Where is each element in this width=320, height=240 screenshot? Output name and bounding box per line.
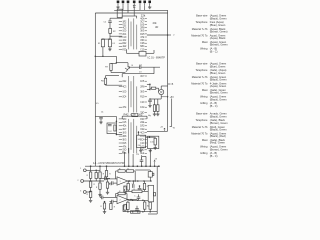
wire +5V drop <box>171 99 173 127</box>
ground <box>89 199 92 202</box>
svg-text:(Brown), Green: (Brown), Green <box>210 91 228 95</box>
wire riser <box>141 155 143 158</box>
junction <box>90 190 92 192</box>
wire <box>132 181 134 184</box>
ground <box>106 191 109 194</box>
wire <box>106 75 120 77</box>
ground <box>98 194 101 197</box>
wire <box>95 115 116 117</box>
wire <box>113 201 117 203</box>
capacitor C21 <box>105 177 106 181</box>
wire <box>90 187 92 191</box>
capacitor C7 <box>99 117 103 118</box>
svg-text:(Blue), Green: (Blue), Green <box>210 64 226 68</box>
svg-text:3C7: 3C7 <box>123 129 127 131</box>
wire to IC1 <box>110 35 122 37</box>
svg-text:10.: 10. <box>101 111 104 113</box>
wire <box>103 38 110 40</box>
wire <box>146 116 148 119</box>
wire <box>113 182 117 184</box>
svg-text:Mast: Mast <box>202 88 208 92</box>
junction <box>128 165 130 167</box>
wire <box>127 181 129 183</box>
wire <box>110 182 112 184</box>
junction <box>104 201 106 203</box>
wire <box>115 194 117 198</box>
wire <box>99 166 101 172</box>
terminal arrow +B <box>154 160 156 166</box>
terminal T5 <box>139 1 142 4</box>
junction <box>158 165 160 167</box>
wire <box>110 202 112 204</box>
svg-text:3C7: 3C7 <box>140 21 145 23</box>
wire <box>150 98 161 100</box>
wire <box>116 62 128 64</box>
wire ic2 top loop <box>122 73 154 75</box>
ground <box>154 147 157 150</box>
wire <box>105 76 107 79</box>
junction <box>142 200 144 202</box>
wire <box>127 6 129 13</box>
svg-text:(Black), Green: (Black), Green <box>210 97 227 101</box>
wire riser <box>149 149 151 167</box>
svg-text:R3O: R3O <box>140 119 144 121</box>
IC U3 pins <box>119 118 122 120</box>
wire <box>104 178 117 180</box>
ground <box>116 6 119 9</box>
terminal T3 <box>127 1 130 4</box>
svg-text:(Black), Green: (Black), Green <box>210 128 227 132</box>
svg-text:R15: R15 <box>140 34 145 36</box>
wire <box>86 191 90 193</box>
wire <box>121 74 123 78</box>
input jack <box>83 169 86 172</box>
wire <box>109 33 111 39</box>
wire bottom rail 2 <box>123 211 157 213</box>
wire <box>136 206 138 209</box>
svg-text:(Black), Green: (Black), Green <box>210 16 227 20</box>
wire loop <box>117 9 122 17</box>
svg-text:I.C.01 - 8948TP: I.C.01 - 8948TP <box>147 56 165 60</box>
wire <box>144 3 146 6</box>
wire <box>156 87 159 89</box>
resistor R31 <box>127 183 129 190</box>
svg-text:1OO: 1OO <box>123 31 127 33</box>
junction <box>124 165 126 167</box>
wire <box>109 183 111 185</box>
wire <box>149 102 151 105</box>
resistor R4 <box>108 39 111 47</box>
wire <box>104 202 106 203</box>
svg-text:1.0k: 1.0k <box>150 142 154 144</box>
wire mid row <box>125 190 133 192</box>
svg-text:Base wire: Base wire <box>196 14 208 18</box>
junction <box>149 165 151 167</box>
ground <box>153 113 156 116</box>
svg-text:R3O: R3O <box>123 49 127 51</box>
junction <box>141 165 143 167</box>
svg-text:Telephone: Telephone <box>196 68 209 72</box>
ground <box>149 149 152 152</box>
junction <box>137 180 139 182</box>
wire <box>107 188 109 191</box>
capacitor C7b <box>108 124 112 125</box>
wire <box>153 67 155 74</box>
wire to f <box>147 34 168 36</box>
wire bus <box>95 12 167 14</box>
wire <box>149 3 151 6</box>
wire <box>106 84 123 86</box>
svg-text:Material 70 To: Material 70 To <box>191 33 208 37</box>
wire <box>149 209 151 212</box>
ground <box>148 104 151 107</box>
wire <box>116 134 122 136</box>
wire <box>90 198 92 200</box>
svg-text:C1O: C1O <box>140 143 144 145</box>
wire <box>144 6 146 11</box>
wire <box>125 170 126 172</box>
resistor R11 <box>114 125 116 131</box>
input jack <box>81 180 84 183</box>
svg-text:1O2: 1O2 <box>140 107 145 109</box>
svg-text:4-1 - AN7273/BA528/TA7376P: 4-1 - AN7273/BA528/TA7376P <box>93 162 125 165</box>
wire <box>115 56 117 63</box>
ground <box>156 113 159 116</box>
svg-text:Base wire: Base wire <box>196 62 208 66</box>
resistor R28b <box>126 170 133 173</box>
svg-text:Wiring: Wiring <box>200 47 208 51</box>
resistor R29 <box>118 192 125 195</box>
ground <box>148 6 151 9</box>
wire <box>139 186 141 188</box>
wire <box>103 196 104 198</box>
svg-text:Mast: Mast <box>202 40 208 44</box>
terminal arrow +B <box>164 128 166 131</box>
junction <box>116 134 118 136</box>
wire box <box>132 113 138 116</box>
wire <box>134 171 136 181</box>
wire <box>124 189 126 191</box>
capacitor C10 <box>140 160 144 161</box>
terminal T7 <box>148 1 151 4</box>
wire <box>157 111 159 112</box>
junction <box>134 180 136 182</box>
wire <box>91 169 100 171</box>
wire <box>144 209 146 212</box>
wire <box>86 169 90 171</box>
wire <box>95 55 116 57</box>
junction <box>99 180 101 182</box>
op-amp A2 <box>117 195 128 203</box>
svg-text:+5V: +5V <box>170 97 175 99</box>
wire <box>124 192 126 193</box>
wire <box>133 3 135 6</box>
junction <box>132 165 134 167</box>
svg-text:O22: O22 <box>123 81 127 83</box>
wire <box>121 16 123 18</box>
resistor R28 <box>118 170 125 173</box>
wire riser <box>145 156 147 166</box>
svg-text:2R8: 2R8 <box>140 86 145 88</box>
svg-text:Telephone: Telephone <box>196 20 209 24</box>
svg-text:(Aqua), Black: (Aqua), Black <box>210 36 226 40</box>
wire <box>104 209 106 211</box>
wire <box>138 194 140 197</box>
junction <box>116 121 118 123</box>
junction <box>132 200 134 202</box>
junction <box>102 56 104 58</box>
wire <box>130 66 140 68</box>
junction f <box>167 34 169 36</box>
junction <box>149 211 151 213</box>
capacitor C8 <box>148 100 152 101</box>
svg-text:Material 7+7b: Material 7+7b <box>192 125 208 129</box>
ground <box>139 149 142 152</box>
junction <box>138 132 140 134</box>
svg-text:Wiring: Wiring <box>200 95 208 99</box>
wire <box>117 3 119 6</box>
wire <box>107 179 109 182</box>
svg-text:(Brown), Green: (Brown), Green <box>210 147 228 151</box>
wire <box>149 201 151 203</box>
junction <box>95 56 97 58</box>
wire <box>122 6 124 11</box>
wire <box>90 190 92 193</box>
resistor R3 <box>101 39 104 47</box>
svg-text:(Black), (Red): (Black), (Red) <box>210 134 226 138</box>
svg-text:O22: O22 <box>123 25 127 27</box>
junction <box>137 165 139 167</box>
input jack <box>83 191 86 194</box>
wire <box>154 99 156 105</box>
svg-text:2R8: 2R8 <box>140 28 145 30</box>
svg-text:33O: 33O <box>123 150 127 152</box>
junction <box>132 211 134 213</box>
terminal arrow +5V <box>161 96 168 98</box>
resistor R22 <box>89 181 91 187</box>
junction <box>90 180 92 182</box>
resistor R21 <box>89 172 91 178</box>
resistor R26 <box>106 182 108 188</box>
wire <box>161 85 167 87</box>
resistor R38 <box>144 202 146 209</box>
wire <box>136 16 138 18</box>
svg-text:C1O: C1O <box>123 37 127 39</box>
svg-text:33O: 33O <box>140 40 144 42</box>
svg-text:C1O: C1O <box>140 102 144 104</box>
svg-text:4C3: 4C3 <box>140 133 145 135</box>
svg-text:(Red), Green: (Red), Green <box>210 141 226 145</box>
wire <box>127 63 129 67</box>
wire <box>100 177 105 179</box>
svg-text:Material 7+7b: Material 7+7b <box>192 75 208 79</box>
resistor R41 <box>124 186 126 192</box>
wire <box>154 137 156 138</box>
resistor R25 <box>99 183 101 189</box>
svg-text:(Brown, Green): (Brown, Green) <box>210 30 228 34</box>
op-amp A1 <box>117 177 128 185</box>
wire riser <box>124 152 126 166</box>
wire <box>111 72 125 74</box>
oscillator box X1 <box>107 123 117 134</box>
junction <box>149 89 151 91</box>
capacitor C28 <box>135 209 139 210</box>
module MW/FM <box>137 135 146 148</box>
svg-text:68O: 68O <box>140 46 144 48</box>
wire riser <box>128 148 130 166</box>
svg-text:Telephone: Telephone <box>196 118 209 122</box>
resistor R10 <box>154 138 156 145</box>
wire <box>110 17 122 19</box>
wire <box>122 151 125 153</box>
svg-text:C15: C15 <box>123 122 127 124</box>
wire <box>150 87 152 89</box>
junction <box>106 165 108 167</box>
svg-text:C28: C28 <box>140 43 145 45</box>
resistor R42 <box>124 204 126 210</box>
wire <box>102 47 104 57</box>
wire <box>115 171 117 179</box>
svg-text:3C7: 3C7 <box>140 76 145 78</box>
wire out2 row <box>129 199 149 201</box>
resistor R9b <box>157 105 159 112</box>
wire <box>146 136 156 138</box>
wire <box>109 47 111 48</box>
wire <box>115 134 117 135</box>
resistor R2 <box>109 29 112 34</box>
wire <box>149 170 151 172</box>
resistor R24 <box>99 172 101 178</box>
wire <box>122 15 137 17</box>
svg-text:1O: 1O <box>139 72 142 74</box>
junction <box>128 180 130 182</box>
enclosure box <box>148 136 159 148</box>
svg-text:(B - C): (B - C) <box>210 49 218 53</box>
wire <box>122 205 124 212</box>
diode D1 <box>133 5 135 7</box>
wire <box>90 166 92 172</box>
svg-text:Wiring: Wiring <box>200 145 208 149</box>
wire <box>100 119 102 121</box>
svg-text:MW: MW <box>138 139 142 141</box>
resistor R23 <box>89 191 91 197</box>
resistor R20 <box>95 173 97 179</box>
svg-text:1O2: 1O2 <box>123 40 127 42</box>
wire <box>122 3 124 6</box>
svg-text:2: 2 <box>120 200 121 202</box>
wire <box>126 194 128 200</box>
wire <box>127 200 129 202</box>
svg-text:Mast: Mast <box>202 138 208 142</box>
wire <box>138 131 140 135</box>
terminal T4 <box>133 1 136 4</box>
wire <box>95 179 97 182</box>
svg-text:(B - C): (B - C) <box>210 104 218 108</box>
wire <box>110 70 112 72</box>
wire <box>104 196 117 198</box>
component box <box>139 51 146 56</box>
junction <box>143 180 145 182</box>
terminal T6 <box>143 1 146 4</box>
svg-text:Base wire: Base wire <box>196 112 208 116</box>
wire enclosure right <box>156 166 158 214</box>
svg-text:(Blue), Green: (Blue), Green <box>210 23 226 27</box>
svg-text:1OO: 1OO <box>140 136 144 138</box>
junction <box>145 165 147 167</box>
wire <box>139 3 141 6</box>
junction <box>149 84 151 86</box>
connector J2 nub <box>152 173 154 175</box>
wire <box>106 177 108 179</box>
svg-text:1O.: 1O. <box>96 103 100 105</box>
junction <box>109 38 111 40</box>
wire bottom rail <box>85 165 160 167</box>
wire <box>149 177 151 181</box>
ground <box>108 48 111 51</box>
transistor Q2 <box>125 67 130 72</box>
wire <box>158 88 160 92</box>
wire +B feed <box>147 130 165 132</box>
wire <box>144 200 146 202</box>
resistor R8 <box>151 87 155 89</box>
wire <box>149 84 151 89</box>
wire <box>127 199 129 201</box>
wire <box>153 50 155 53</box>
wire <box>128 180 137 182</box>
wire <box>140 148 142 149</box>
wire <box>121 116 123 119</box>
wire <box>90 178 92 181</box>
wire <box>135 169 150 171</box>
svg-text:68O: 68O <box>123 119 127 121</box>
svg-text:R15: R15 <box>140 97 145 99</box>
junction <box>137 200 139 202</box>
wire <box>138 198 140 200</box>
wire <box>160 95 162 99</box>
wire <box>170 126 172 128</box>
wire <box>100 196 102 198</box>
wire <box>124 210 126 212</box>
junction <box>137 211 139 213</box>
junction <box>142 211 144 213</box>
wire left bus <box>94 13 96 166</box>
wire <box>116 193 118 195</box>
capacitor C31 <box>112 200 113 204</box>
svg-text:4C3: 4C3 <box>123 28 127 30</box>
svg-text:FM: FM <box>138 145 141 147</box>
junction <box>116 62 118 64</box>
resistor R30 <box>103 203 105 209</box>
wire <box>147 89 150 91</box>
junction <box>95 170 97 172</box>
ground <box>99 121 102 124</box>
resistor R33 <box>132 190 142 193</box>
wire <box>99 189 101 193</box>
wire <box>115 116 117 123</box>
ground <box>103 211 106 214</box>
svg-text:(Aqua), Green: (Aqua), Green <box>210 84 227 88</box>
svg-text:(B - C): (B - C) <box>210 154 218 158</box>
junction <box>130 199 132 201</box>
junction <box>150 180 152 182</box>
capacitor C26 <box>137 197 141 198</box>
wire <box>127 52 140 54</box>
junction <box>133 180 135 182</box>
capacitor C23 <box>133 184 134 188</box>
wire enclosure bottom <box>148 213 157 215</box>
junction <box>102 38 104 40</box>
wire <box>95 170 97 172</box>
